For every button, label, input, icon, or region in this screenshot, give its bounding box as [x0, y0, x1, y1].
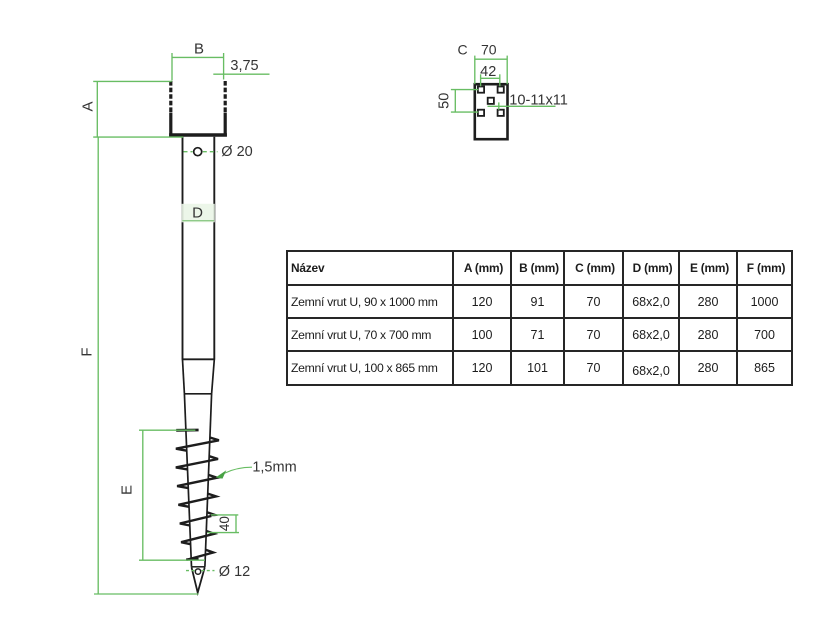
hole callout tick	[498, 102, 500, 109]
shaft left edge	[182, 137, 184, 360]
dim E vertical line	[142, 430, 144, 560]
hole center	[488, 98, 494, 104]
hole top-right	[498, 87, 504, 93]
svg-text:40: 40	[217, 516, 232, 531]
dia20 dashed leader	[184, 151, 218, 153]
dim 3,75 leader line	[213, 73, 269, 75]
bracket right wall solid lower	[224, 113, 227, 137]
svg-text:B: B	[194, 41, 204, 58]
bracket left wall dashed upper	[169, 81, 172, 114]
top view dim 50 vertical	[454, 90, 456, 113]
dim 40 top line	[211, 514, 238, 516]
helix turn 4	[178, 494, 216, 507]
svg-text:D: D	[192, 205, 203, 222]
top view dim 50 top extension	[451, 89, 478, 91]
upper taper right edge	[212, 360, 215, 394]
svg-text:70: 70	[481, 42, 497, 58]
label A	[80, 101, 97, 111]
dim 40 bottom line	[208, 532, 240, 534]
top view dim 42 line	[480, 77, 500, 79]
helix turn 5	[180, 512, 215, 525]
top view dim 70 right extension	[506, 56, 508, 85]
label D	[192, 205, 203, 222]
top view dim 50 bottom extension	[451, 111, 478, 113]
svg-text:Ø 12: Ø 12	[219, 564, 250, 580]
dim 40 white mask	[212, 516, 237, 531]
bracket bottom plate	[169, 133, 227, 137]
helix turn 6	[181, 531, 214, 544]
dim B horizontal line	[172, 56, 224, 58]
top view dim 42 right tick	[499, 74, 501, 86]
lower taper left edge	[184, 394, 191, 567]
dim D line	[182, 220, 214, 222]
label 1,5mm arrowhead	[216, 470, 227, 478]
dim A vertical line	[96, 81, 98, 137]
dim A bottom extension	[93, 136, 183, 138]
top view geometry	[475, 84, 508, 139]
svg-text:E: E	[118, 485, 135, 495]
label 40	[217, 516, 232, 531]
helix turn 2	[176, 456, 218, 469]
top view dim 70 line	[475, 58, 507, 60]
label dia 20	[221, 144, 252, 160]
dim F vertical line	[97, 137, 99, 594]
svg-text:42: 42	[480, 64, 496, 80]
helix start bar	[176, 429, 198, 432]
label 70	[481, 42, 497, 58]
dim B right extension	[223, 53, 225, 80]
label 10-11x11	[509, 92, 568, 108]
bracket right wall dashed upper	[224, 81, 227, 114]
dia12 dashed leader	[186, 570, 215, 572]
hole callout leader 10-11x11	[488, 105, 556, 107]
hole bottom-left	[478, 110, 484, 116]
label E	[118, 485, 135, 495]
dim A top extension	[93, 80, 172, 82]
tip cone	[192, 567, 205, 592]
label F	[79, 347, 96, 356]
shaft hole circle	[194, 148, 202, 156]
green dimension layer	[93, 53, 555, 594]
upper taper left edge	[183, 360, 185, 394]
svg-text:3,75: 3,75	[230, 58, 258, 74]
hole top-left	[478, 87, 484, 93]
dim B left extension	[171, 53, 173, 81]
dim D highlight box	[182, 204, 215, 223]
top view dim 70 left extension	[474, 56, 476, 85]
dim F bottom extension	[94, 593, 199, 595]
label 42	[480, 64, 496, 80]
tip shoulder line	[191, 566, 205, 568]
svg-text:C: C	[457, 42, 467, 58]
helix turn 3	[177, 475, 217, 488]
helix turn 7	[186, 550, 213, 560]
label B	[194, 41, 204, 58]
svg-text:10-11x11: 10-11x11	[509, 92, 568, 108]
dim E bottom extension	[139, 559, 205, 561]
top view dim 42 left tick	[480, 74, 482, 86]
dim 40 right vertical	[235, 515, 237, 533]
helix turn 1	[176, 438, 219, 451]
svg-text:Ø 20: Ø 20	[221, 144, 252, 160]
svg-text:50: 50	[436, 93, 452, 109]
label 1,5mm leader curve	[225, 467, 253, 473]
hole bottom-right	[498, 110, 504, 116]
shaft bottom joint line	[182, 358, 215, 360]
label 50	[436, 93, 452, 109]
label 1,5mm	[252, 460, 296, 476]
shaft right edge	[213, 137, 215, 360]
label C	[457, 42, 467, 58]
label dia 12	[219, 564, 250, 580]
label 3,75	[230, 58, 258, 74]
svg-text:1,5mm: 1,5mm	[252, 460, 296, 476]
lower taper right edge	[205, 394, 212, 567]
specification table	[286, 250, 793, 386]
base plate outline (top view)	[475, 84, 508, 139]
svg-text:A: A	[80, 101, 97, 111]
svg-text:F: F	[79, 347, 96, 356]
dim E top extension	[139, 429, 195, 431]
bracket left wall solid lower	[169, 113, 172, 137]
helix end bar	[186, 558, 198, 561]
tip hole circle	[195, 569, 200, 574]
taper joint line	[184, 393, 212, 395]
